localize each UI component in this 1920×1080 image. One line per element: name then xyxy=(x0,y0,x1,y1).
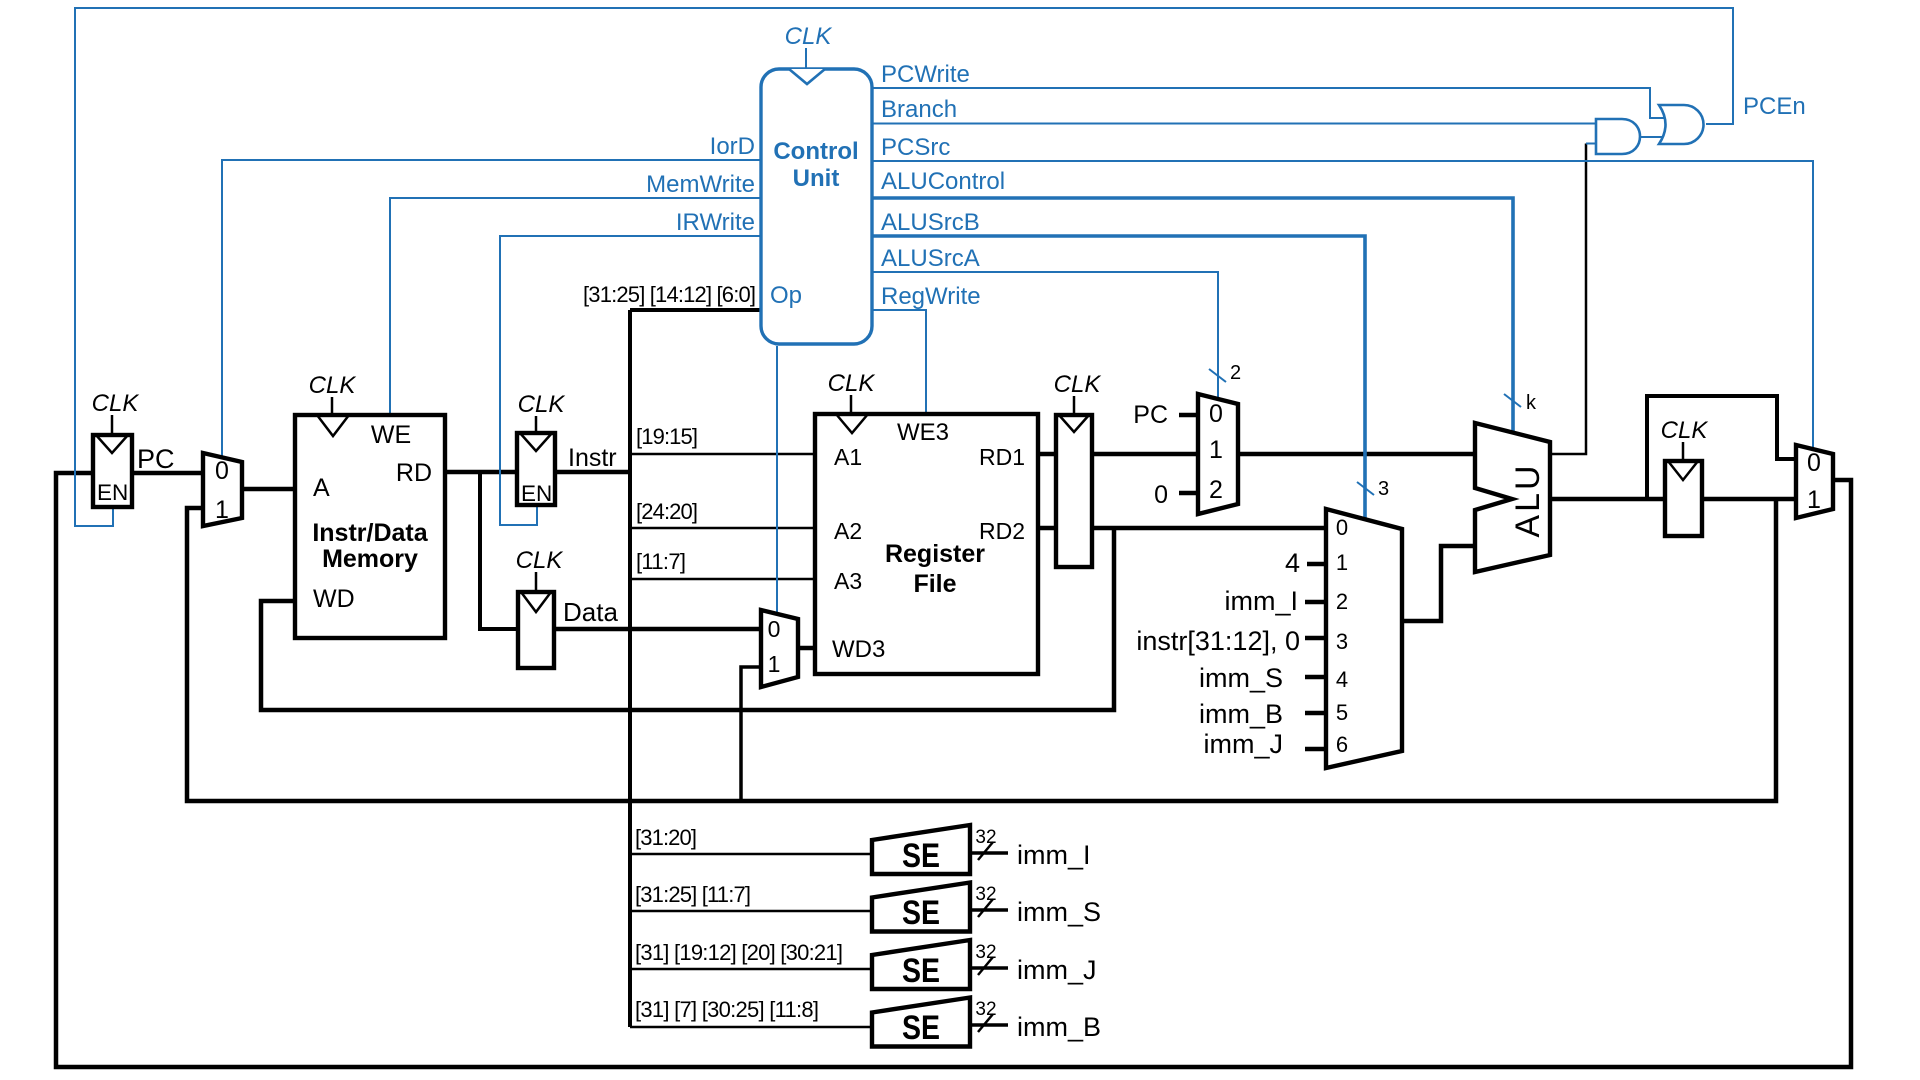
svg-text:imm_J: imm_J xyxy=(1204,729,1284,759)
svg-text:ALUSrcA: ALUSrcA xyxy=(881,245,980,272)
svg-text:CLK: CLK xyxy=(1661,417,1709,444)
svg-text:ALU: ALU xyxy=(1509,462,1547,537)
svg-text:RD1: RD1 xyxy=(979,444,1025,470)
svg-text:32: 32 xyxy=(975,884,996,905)
svg-text:[24:20]: [24:20] xyxy=(636,499,698,524)
svg-text:imm_B: imm_B xyxy=(1199,699,1283,729)
svg-text:instr[31:12], 0: instr[31:12], 0 xyxy=(1136,626,1300,656)
svg-text:WE3: WE3 xyxy=(897,419,949,446)
svg-text:0: 0 xyxy=(1807,449,1821,477)
svg-text:32: 32 xyxy=(975,827,996,848)
svg-text:1: 1 xyxy=(1209,436,1223,464)
svg-text:[19:15]: [19:15] xyxy=(636,424,698,449)
svg-text:PCEn: PCEn xyxy=(1743,93,1806,120)
svg-text:EN: EN xyxy=(97,480,128,505)
svg-text:0: 0 xyxy=(1336,515,1348,540)
svg-text:RD2: RD2 xyxy=(979,518,1025,544)
svg-text:SE: SE xyxy=(902,837,940,875)
svg-text:CLK: CLK xyxy=(1054,371,1102,398)
svg-text:imm_S: imm_S xyxy=(1199,663,1283,693)
svg-text:4: 4 xyxy=(1285,548,1300,578)
svg-text:IRWrite: IRWrite xyxy=(676,209,755,236)
svg-text:1: 1 xyxy=(1336,550,1348,575)
svg-text:Instr/Data: Instr/Data xyxy=(312,519,428,547)
svg-text:Memory: Memory xyxy=(322,545,418,573)
svg-text:ALUControl: ALUControl xyxy=(881,168,1005,195)
svg-text:[31:25] [11:7]: [31:25] [11:7] xyxy=(635,882,751,907)
svg-text:MemWrite: MemWrite xyxy=(646,171,755,198)
svg-text:IorD: IorD xyxy=(710,133,755,160)
svg-text:ALUSrcB: ALUSrcB xyxy=(881,209,980,236)
svg-text:CLK: CLK xyxy=(518,391,566,418)
svg-text:imm_J: imm_J xyxy=(1017,955,1097,985)
svg-text:A1: A1 xyxy=(834,444,862,470)
svg-text:CLK: CLK xyxy=(309,372,357,399)
svg-text:0: 0 xyxy=(768,616,781,642)
svg-text:32: 32 xyxy=(975,999,996,1020)
svg-text:Control: Control xyxy=(773,138,858,165)
svg-text:A3: A3 xyxy=(834,568,862,594)
svg-text:Unit: Unit xyxy=(793,165,840,192)
svg-text:32: 32 xyxy=(975,942,996,963)
svg-text:2: 2 xyxy=(1209,476,1223,504)
svg-text:A: A xyxy=(313,474,330,502)
svg-text:File: File xyxy=(913,570,956,598)
svg-text:1: 1 xyxy=(768,651,781,677)
svg-text:3: 3 xyxy=(1378,478,1389,500)
svg-text:0: 0 xyxy=(1154,481,1168,509)
svg-text:imm_I: imm_I xyxy=(1225,586,1299,616)
svg-text:WD3: WD3 xyxy=(832,636,885,663)
svg-text:Branch: Branch xyxy=(881,96,957,123)
svg-text:A2: A2 xyxy=(834,518,862,544)
svg-text:[31:20]: [31:20] xyxy=(635,825,697,850)
svg-text:PCWrite: PCWrite xyxy=(881,61,970,88)
svg-text:1: 1 xyxy=(215,496,229,524)
svg-text:Data: Data xyxy=(563,597,618,627)
svg-text:RegWrite: RegWrite xyxy=(881,283,981,310)
svg-text:6: 6 xyxy=(1336,732,1348,757)
svg-text:Op: Op xyxy=(770,282,802,309)
svg-text:Register: Register xyxy=(885,540,985,568)
svg-text:imm_I: imm_I xyxy=(1017,840,1091,870)
svg-text:1: 1 xyxy=(1807,486,1821,514)
svg-text:SE: SE xyxy=(902,952,940,990)
svg-text:[31:25] [14:12] [6:0]: [31:25] [14:12] [6:0] xyxy=(583,282,756,307)
svg-text:CLK: CLK xyxy=(785,23,833,50)
svg-text:0: 0 xyxy=(1209,400,1223,428)
svg-text:CLK: CLK xyxy=(92,390,140,417)
svg-text:[31] [7] [30:25] [11:8]: [31] [7] [30:25] [11:8] xyxy=(635,997,819,1022)
svg-text:2: 2 xyxy=(1336,589,1348,614)
svg-text:PC: PC xyxy=(1133,401,1168,429)
svg-text:PC: PC xyxy=(137,444,175,474)
svg-text:EN: EN xyxy=(521,481,552,506)
svg-text:WE: WE xyxy=(371,421,411,449)
svg-text:imm_B: imm_B xyxy=(1017,1012,1101,1042)
svg-text:CLK: CLK xyxy=(828,370,876,397)
svg-text:SE: SE xyxy=(902,894,940,932)
svg-text:[31] [19:12] [20] [30:21]: [31] [19:12] [20] [30:21] xyxy=(635,940,843,965)
svg-text:PCSrc: PCSrc xyxy=(881,134,950,161)
svg-text:Instr: Instr xyxy=(568,444,617,472)
svg-text:imm_S: imm_S xyxy=(1017,897,1101,927)
svg-text:[11:7]: [11:7] xyxy=(636,549,686,574)
svg-text:3: 3 xyxy=(1336,629,1348,654)
svg-text:k: k xyxy=(1526,392,1537,414)
svg-text:5: 5 xyxy=(1336,700,1348,725)
svg-text:WD: WD xyxy=(313,585,355,613)
svg-text:RD: RD xyxy=(396,459,432,487)
svg-text:0: 0 xyxy=(215,457,229,485)
svg-text:4: 4 xyxy=(1336,667,1348,692)
svg-text:2: 2 xyxy=(1230,362,1241,384)
svg-text:SE: SE xyxy=(902,1009,940,1047)
svg-text:CLK: CLK xyxy=(516,547,564,574)
